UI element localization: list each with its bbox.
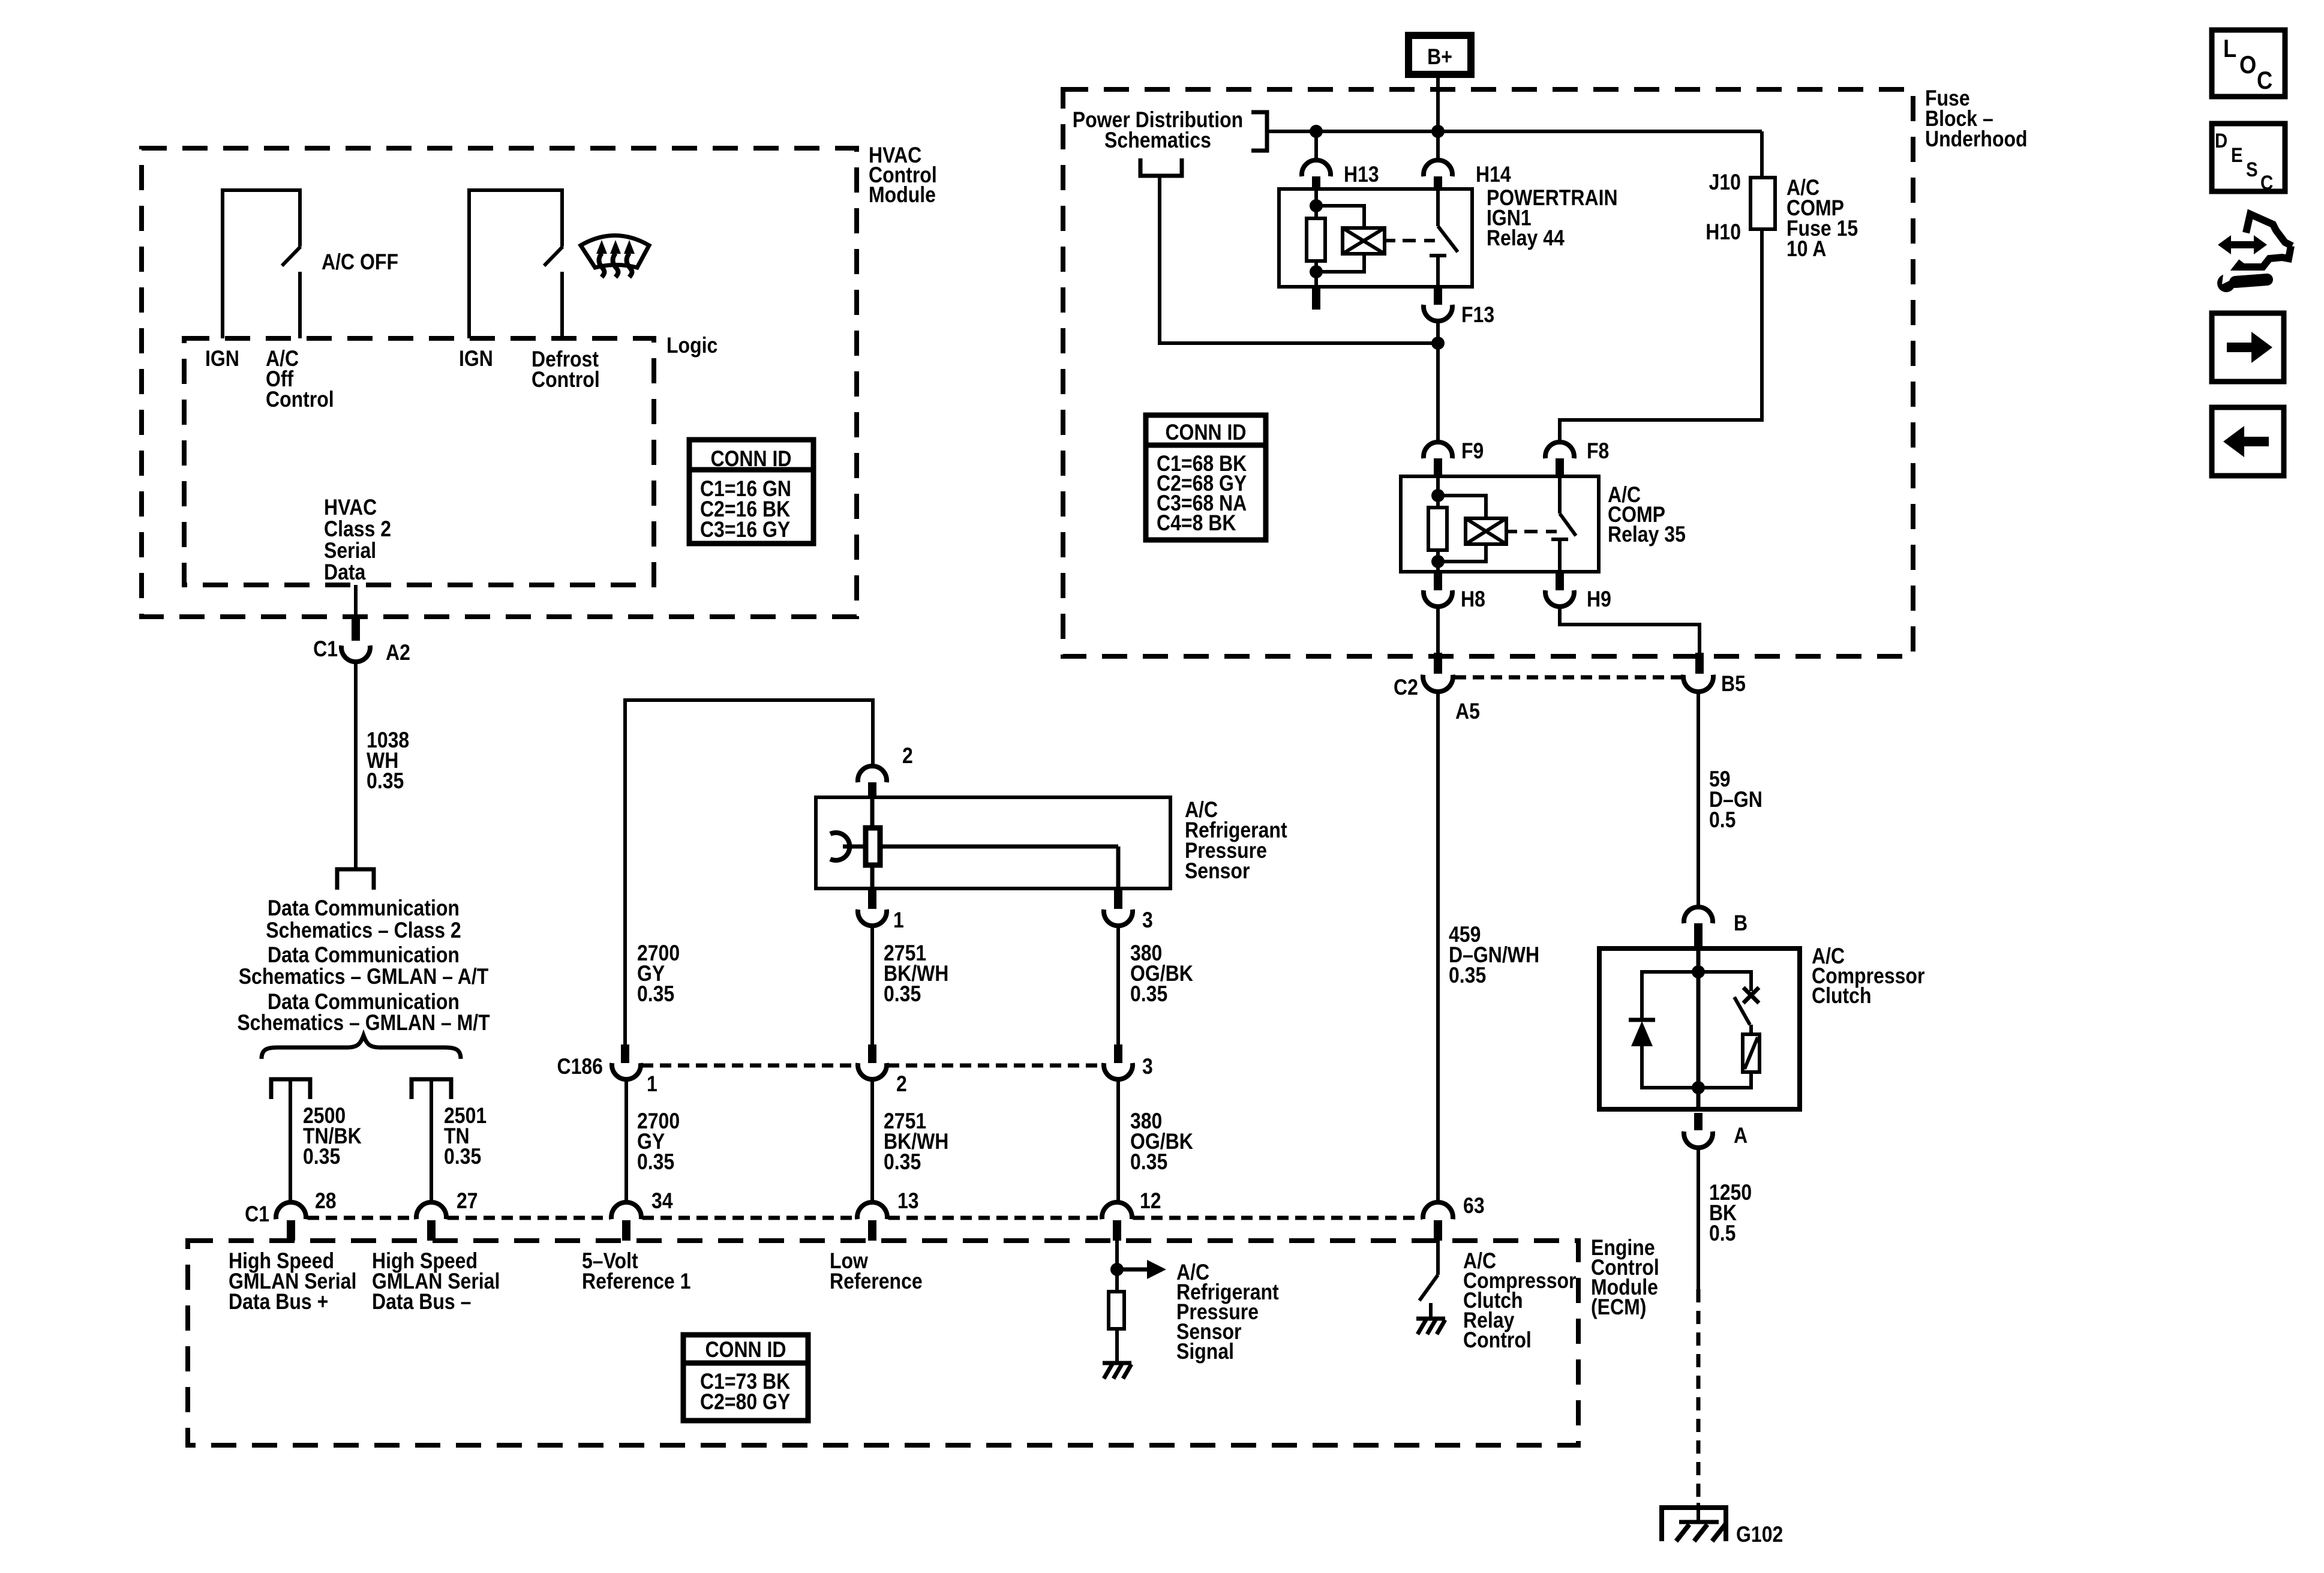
- svg-text:G102: G102: [1736, 1523, 1783, 1547]
- wire 2751 upper: [870, 926, 874, 1044]
- svg-text:2: 2: [902, 744, 913, 769]
- svg-text:IGN: IGN: [459, 347, 493, 371]
- label High Speed GMLAN Serial Data Bus -: [372, 1249, 500, 1314]
- label Data Communication Schematics: [237, 896, 490, 1035]
- wire H9 to B5: [1560, 607, 1700, 653]
- svg-text:0.5: 0.5: [1709, 808, 1736, 833]
- fuse 15: [1750, 178, 1775, 229]
- connector H9: [1545, 572, 1574, 607]
- svg-text:HVAC: HVAC: [324, 496, 377, 520]
- svg-text:Control: Control: [1463, 1328, 1532, 1353]
- svg-text:C: C: [2260, 171, 2273, 194]
- relay 44 box: [1279, 189, 1472, 287]
- label H9: [1587, 587, 1611, 612]
- svg-text:Data Communication: Data Communication: [268, 896, 460, 921]
- label H13: [1344, 163, 1379, 187]
- label 2751 BK/WH 0.35 (lower): [884, 1109, 948, 1175]
- wire fuse to F8: [1560, 229, 1762, 443]
- CONN ID table (ECM): [683, 1335, 808, 1421]
- label 2751 BK/WH 0.35 (upper): [884, 941, 948, 1007]
- label pin 2: [902, 744, 913, 769]
- wire H8 to C2: [1436, 607, 1440, 653]
- svg-text:0.35: 0.35: [444, 1145, 481, 1169]
- connector F9: [1424, 442, 1452, 476]
- connector H8: [1424, 572, 1452, 607]
- svg-text:A: A: [1734, 1124, 1747, 1148]
- signal arrow: [1117, 1260, 1166, 1279]
- label A/C OFF: [322, 250, 398, 275]
- svg-text:E: E: [2231, 143, 2243, 167]
- svg-text:0.5: 0.5: [1709, 1221, 1736, 1246]
- connector sensor pin 3: [1104, 888, 1133, 926]
- svg-text:Module: Module: [869, 183, 936, 208]
- connector A: [1684, 1113, 1713, 1148]
- label pin 12: [1140, 1189, 1161, 1214]
- label C1: [313, 637, 338, 662]
- connector C186 pin 1: [612, 1044, 641, 1079]
- ECM sensor signal node: [1110, 1241, 1124, 1292]
- label A/C Compressor Clutch Relay Control: [1463, 1249, 1576, 1353]
- svg-text:J10: J10: [1709, 170, 1741, 195]
- svg-text:B+: B+: [1427, 45, 1452, 70]
- label F8: [1587, 439, 1609, 464]
- power distribution bracket: [1251, 112, 1267, 151]
- A/C compressor clutch box: [1599, 948, 1800, 1109]
- svg-text:(ECM): (ECM): [1591, 1295, 1646, 1320]
- battery feed B+: [1409, 35, 1471, 74]
- svg-text:CONN ID: CONN ID: [705, 1338, 786, 1362]
- wire 380 lower: [1116, 1080, 1120, 1203]
- label A: [1734, 1124, 1747, 1148]
- label 2700 GY 0.35 (lower): [637, 1109, 680, 1175]
- svg-text:Clutch: Clutch: [1812, 984, 1872, 1008]
- svg-text:IGN: IGN: [205, 347, 239, 371]
- connector B: [1684, 907, 1713, 947]
- svg-text:Schematics: Schematics: [1104, 128, 1211, 153]
- A/C refrigerant pressure sensor box: [816, 797, 1170, 888]
- label F13: [1461, 303, 1494, 328]
- label 2700 GY 0.35 (upper): [637, 941, 680, 1007]
- svg-text:34: 34: [651, 1189, 673, 1214]
- svg-text:Data Bus +: Data Bus +: [229, 1290, 328, 1314]
- svg-text:Signal: Signal: [1176, 1340, 1234, 1364]
- wire serial data: [354, 585, 358, 618]
- connector sensor pin 1: [858, 888, 887, 926]
- Fuse Block - Underhood dashed box: [1063, 89, 1913, 656]
- ground (sensor signal): [1103, 1363, 1131, 1379]
- switch A/C OFF: [223, 190, 301, 338]
- svg-text:CONN ID: CONN ID: [710, 447, 791, 472]
- label B5: [1721, 672, 1746, 697]
- icon vehicle/wrench: [2217, 214, 2292, 292]
- svg-text:C3=16 GY: C3=16 GY: [700, 518, 790, 542]
- svg-text:H14: H14: [1476, 163, 1511, 187]
- label C1 (ECM): [245, 1202, 269, 1227]
- clutch internal bus: [1692, 948, 1705, 1109]
- Logic dashed box: [184, 338, 654, 585]
- label IGN 2: [459, 347, 493, 371]
- HVAC Control Module dashed box: [142, 148, 857, 617]
- wire 380 upper: [1116, 926, 1120, 1044]
- label HVAC Class 2 Serial Data: [324, 496, 391, 585]
- svg-text:0.35: 0.35: [637, 982, 674, 1007]
- svg-text:O: O: [2239, 51, 2256, 79]
- wire 459: [1436, 692, 1440, 1202]
- svg-text:Logic: Logic: [666, 334, 717, 358]
- svg-text:CONN ID: CONN ID: [1165, 421, 1246, 445]
- label A2: [386, 641, 410, 665]
- svg-text:Class 2: Class 2: [324, 517, 391, 542]
- svg-text:Relay 44: Relay 44: [1487, 226, 1565, 251]
- label 1250 BK 0.5: [1709, 1181, 1752, 1246]
- relay 35 coil: [1428, 476, 1557, 572]
- ground G102: [1662, 1503, 1726, 1541]
- label 2500 TN/BK 0.35: [303, 1104, 362, 1169]
- svg-text:C: C: [2257, 67, 2272, 95]
- svg-text:27: 27: [457, 1189, 478, 1214]
- svg-text:H10: H10: [1706, 220, 1741, 245]
- CONN ID table (fuse block): [1146, 415, 1266, 540]
- label A/C Off Control: [266, 347, 334, 412]
- label 459 D-GN/WH 0.35: [1449, 923, 1539, 988]
- connector F8: [1545, 442, 1574, 476]
- svg-text:0.35: 0.35: [367, 769, 404, 794]
- relay 44 coil: [1307, 189, 1435, 310]
- svg-text:Data: Data: [324, 560, 366, 585]
- svg-text:C4=8 BK: C4=8 BK: [1157, 511, 1236, 536]
- svg-text:A5: A5: [1455, 700, 1480, 724]
- svg-text:1: 1: [647, 1072, 657, 1097]
- svg-text:0.35: 0.35: [1130, 1150, 1167, 1175]
- label A/C COMP Fuse 15 10 A: [1786, 176, 1858, 262]
- connector ECM pin 27: [416, 1202, 446, 1241]
- svg-text:0.35: 0.35: [637, 1150, 674, 1175]
- label pin 3: [1142, 908, 1153, 933]
- svg-text:0.35: 0.35: [1449, 963, 1486, 988]
- node F13 junction: [1431, 322, 1445, 443]
- svg-text:C2=80 GY: C2=80 GY: [700, 1390, 790, 1415]
- CONN ID table (HVAC): [689, 440, 813, 544]
- off-page bracket 2501: [412, 1079, 451, 1099]
- wire 2700 lower: [624, 1080, 628, 1203]
- connector C1/A2: [341, 618, 370, 662]
- label Defrost Control: [532, 347, 600, 392]
- svg-text:C1: C1: [313, 637, 338, 662]
- label 1038 WH 0.35: [367, 728, 409, 794]
- svg-text:10 A: 10 A: [1786, 237, 1826, 262]
- relay 35 switch: [1551, 476, 1576, 572]
- wire 2751 lower: [870, 1080, 874, 1203]
- svg-text:0.35: 0.35: [884, 1150, 921, 1175]
- svg-text:3: 3: [1142, 908, 1153, 933]
- connector ECM pin 28: [276, 1202, 306, 1241]
- svg-text:Data Communication: Data Communication: [268, 943, 460, 968]
- wire H13 drop: [1314, 131, 1318, 161]
- label Logic: [666, 334, 717, 358]
- label pin 28: [315, 1189, 337, 1214]
- connector C186 pin 3: [1104, 1044, 1133, 1079]
- icon DESC: [2212, 124, 2285, 194]
- label Fuse Block - Underhood: [1925, 86, 2028, 152]
- bus wire: [1267, 125, 1762, 138]
- label C186 pin 3: [1142, 1055, 1153, 1079]
- label C186 pin 1: [647, 1072, 657, 1097]
- off-page bracket (data comm): [337, 869, 374, 890]
- wire 1250 solid: [1697, 1148, 1700, 1289]
- connector ECM pin 34: [611, 1202, 641, 1241]
- label A/C Refrigerant Pressure Sensor Signal: [1176, 1260, 1279, 1364]
- svg-text:A2: A2: [386, 641, 410, 665]
- svg-text:C2: C2: [1394, 676, 1418, 700]
- connector C2: [1423, 653, 1453, 692]
- label High Speed GMLAN Serial Data Bus +: [229, 1249, 356, 1314]
- svg-text:Control: Control: [266, 388, 334, 412]
- label C186 pin 2: [896, 1072, 907, 1097]
- label Low Reference: [830, 1249, 923, 1294]
- label H10: [1706, 220, 1741, 245]
- svg-text:13: 13: [897, 1189, 919, 1214]
- label G102: [1736, 1523, 1783, 1547]
- svg-text:C186: C186: [557, 1055, 602, 1079]
- label Power Distribution Schematics: [1073, 108, 1243, 153]
- label pin 13: [897, 1189, 919, 1214]
- label H14: [1476, 163, 1511, 187]
- curly brace: [262, 1035, 461, 1059]
- relay 44 switch: [1430, 189, 1458, 287]
- label 2501 TN 0.35: [444, 1104, 487, 1169]
- resistor (sensor signal): [1109, 1292, 1124, 1362]
- svg-text:S: S: [2246, 158, 2258, 181]
- wire 2501: [430, 1079, 433, 1203]
- label IGN 1: [205, 347, 239, 371]
- svg-text:A/C OFF: A/C OFF: [322, 250, 398, 275]
- svg-text:Control: Control: [532, 368, 600, 392]
- svg-text:Schematics – GMLAN – A/T: Schematics – GMLAN – A/T: [239, 965, 489, 989]
- label A/C Refrigerant Pressure Sensor: [1185, 798, 1287, 884]
- label J10: [1709, 170, 1741, 195]
- icon back arrow: [2212, 407, 2284, 476]
- connector F13: [1424, 287, 1452, 321]
- clutch diode branch: [1629, 972, 1698, 1088]
- label B: [1734, 911, 1747, 936]
- svg-text:1: 1: [893, 908, 904, 933]
- switch Defrost: [469, 190, 563, 338]
- svg-text:Schematics – Class 2: Schematics – Class 2: [266, 918, 461, 943]
- connector ECM pin 12: [1102, 1202, 1132, 1241]
- label A5: [1455, 700, 1480, 724]
- connector H13: [1302, 160, 1331, 189]
- svg-text:63: 63: [1463, 1194, 1485, 1218]
- svg-text:Relay 35: Relay 35: [1608, 523, 1686, 547]
- wire 1250 dashed: [1697, 1289, 1701, 1505]
- svg-text:H13: H13: [1344, 163, 1379, 187]
- label pin 34: [651, 1189, 673, 1214]
- connector C186 pin 2: [858, 1044, 887, 1079]
- label F9: [1461, 439, 1484, 464]
- off-page bracket 2500: [271, 1079, 310, 1099]
- wire 59: [1697, 692, 1700, 908]
- wire H14 drop: [1436, 131, 1440, 161]
- label 380 OG/BK 0.35 (lower): [1130, 1109, 1193, 1175]
- svg-text:2: 2: [896, 1072, 907, 1097]
- connector H14: [1424, 160, 1452, 189]
- ECM dashed box: [188, 1241, 1578, 1445]
- label POWERTRAIN IGN1 Relay 44: [1487, 186, 1618, 251]
- svg-text:B5: B5: [1721, 672, 1746, 697]
- relay 35 box: [1401, 476, 1599, 572]
- ECM connector tie line: [308, 1216, 1422, 1220]
- svg-text:3: 3: [1142, 1055, 1153, 1079]
- svg-text:H8: H8: [1461, 587, 1485, 612]
- svg-text:28: 28: [315, 1189, 337, 1214]
- label pin 27: [457, 1189, 478, 1214]
- svg-text:0.35: 0.35: [303, 1145, 340, 1169]
- svg-text:0.35: 0.35: [1130, 982, 1167, 1007]
- label H8: [1461, 587, 1485, 612]
- svg-text:Serial: Serial: [324, 539, 376, 563]
- svg-text:0.35: 0.35: [884, 982, 921, 1007]
- switch A/C compressor clutch relay control: [1419, 1241, 1438, 1317]
- svg-text:Reference: Reference: [830, 1269, 923, 1294]
- wire 2700 loop: [625, 700, 873, 1044]
- connector ECM pin 13: [857, 1202, 887, 1241]
- wire fuse feed: [1760, 131, 1764, 178]
- ground (relay control): [1416, 1319, 1445, 1334]
- svg-text:12: 12: [1140, 1189, 1161, 1214]
- connector ECM pin 63: [1423, 1202, 1453, 1241]
- svg-text:C1: C1: [245, 1202, 269, 1227]
- svg-text:F9: F9: [1461, 439, 1484, 464]
- label A/C COMP Relay 35: [1608, 483, 1686, 547]
- label pin 1: [893, 908, 904, 933]
- svg-text:D: D: [2215, 129, 2227, 152]
- icon LOC: [2212, 30, 2285, 97]
- svg-text:F13: F13: [1461, 303, 1494, 328]
- connector C186 tie line: [642, 1064, 1103, 1068]
- wire 1038: [354, 662, 358, 869]
- label pin 63: [1463, 1194, 1485, 1218]
- svg-text:B: B: [1734, 911, 1747, 936]
- svg-text:Sensor: Sensor: [1185, 859, 1250, 884]
- connector sensor pin 2: [858, 766, 887, 799]
- svg-text:Reference 1: Reference 1: [582, 1269, 690, 1294]
- svg-text:L: L: [2223, 35, 2236, 63]
- svg-text:Data Bus –: Data Bus –: [372, 1290, 471, 1314]
- label A/C Compressor Clutch: [1812, 944, 1924, 1008]
- wire 2500: [289, 1079, 292, 1203]
- connector tie C2-B5: [1455, 676, 1682, 680]
- label 5-Volt Reference 1: [582, 1249, 690, 1294]
- clutch switch/thermistor branch: [1698, 972, 1759, 1088]
- icon forward arrow: [2212, 313, 2284, 382]
- label 59 D-GN 0.5: [1709, 767, 1762, 833]
- wire B+ to bus: [1436, 74, 1440, 131]
- connector B5: [1683, 653, 1713, 692]
- defrost icon: [581, 236, 649, 278]
- svg-text:F8: F8: [1587, 439, 1609, 464]
- label Engine Control Module (ECM): [1591, 1236, 1659, 1320]
- wire bracket to F13 node: [1160, 176, 1438, 343]
- svg-text:Underhood: Underhood: [1925, 127, 2028, 152]
- off-page bracket (power dist): [1140, 158, 1182, 176]
- label C186: [557, 1055, 602, 1079]
- label C2: [1394, 676, 1418, 700]
- label HVAC Control Module: [869, 143, 937, 208]
- svg-text:H9: H9: [1587, 587, 1611, 612]
- label 380 OG/BK 0.35 (upper): [1130, 941, 1193, 1007]
- sensor internals: [830, 797, 1118, 888]
